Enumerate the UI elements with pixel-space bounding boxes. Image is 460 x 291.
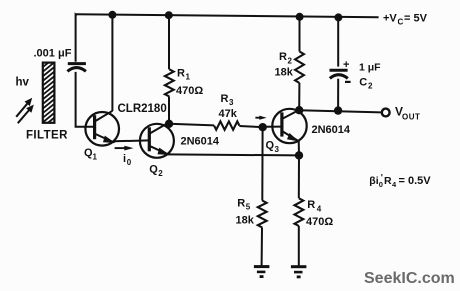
annotation beta i0 R4 = 0.5V <box>369 173 431 190</box>
junction dot Q3 emitter/R4 <box>295 151 303 159</box>
svg-text:hv: hv <box>16 77 30 89</box>
resistor R3 47k <box>169 121 263 129</box>
label 2N6014 (Q2) <box>181 135 220 147</box>
svg-text:1: 1 <box>186 73 191 82</box>
svg-text:Q: Q <box>266 139 275 151</box>
svg-text:βi: βi <box>369 175 378 187</box>
capacitor C2 1uF <box>330 17 348 110</box>
svg-text:R: R <box>307 199 315 211</box>
wire Q1 collector to rail <box>111 15 113 111</box>
label R3 <box>221 93 235 107</box>
ground (R4) <box>291 267 307 277</box>
junction dot Q3 collector/R2 <box>295 106 303 114</box>
junction dot C2 bottom <box>334 106 342 114</box>
resistor R4 470ohm <box>295 155 304 265</box>
label FILTER <box>26 130 68 142</box>
label R1 <box>177 67 191 81</box>
wire Q2 emitter to R4 node <box>168 154 299 155</box>
label hv <box>16 77 30 89</box>
wire C1 to Q1 base <box>76 72 95 127</box>
label 18k (R5) <box>236 214 255 226</box>
base current arrow (Q3) <box>255 116 266 120</box>
junction dot rail/C2 <box>334 13 342 21</box>
junction dot rail/R1 <box>165 11 173 19</box>
terminal Vout <box>382 109 390 117</box>
svg-text:R: R <box>384 175 392 187</box>
svg-text:1 μF: 1 μF <box>359 61 381 73</box>
wire Q3 collector node to Vout <box>299 110 381 112</box>
label Vout <box>395 104 420 121</box>
svg-text:1: 1 <box>93 153 98 162</box>
svg-text:= 5V: = 5V <box>404 13 428 25</box>
svg-text:R: R <box>279 51 287 63</box>
resistor R5 18k <box>258 127 267 265</box>
label + (C2) <box>343 59 349 71</box>
svg-text:Q: Q <box>149 163 158 175</box>
svg-text:R: R <box>221 93 229 105</box>
label R5 <box>237 197 251 211</box>
light arrow 1 <box>16 98 32 117</box>
label CLR2180 <box>118 103 167 115</box>
junction dot rail/Q1 <box>108 11 116 19</box>
label 18k (R2) <box>275 67 294 79</box>
junction dot R1/Q2 collector/R3 <box>165 120 173 128</box>
label 470 ohm <box>176 85 203 97</box>
label C2 <box>359 76 373 90</box>
svg-text:2: 2 <box>288 57 293 66</box>
svg-text:SeekIC.com: SeekIC.com <box>364 270 455 287</box>
svg-text:R: R <box>237 197 245 209</box>
junction dot rail/R2 <box>296 13 304 21</box>
svg-text:2: 2 <box>368 82 373 91</box>
svg-text:470Ω: 470Ω <box>306 216 333 228</box>
label Q3 <box>266 139 280 154</box>
svg-text:18k: 18k <box>275 67 294 79</box>
junction dot R3/Q3 base/R5 <box>259 123 267 131</box>
svg-text:i: i <box>123 153 126 165</box>
svg-text:OUT: OUT <box>402 112 420 121</box>
label 1 uF <box>359 61 381 73</box>
svg-text:CLR2180: CLR2180 <box>118 103 167 115</box>
label R4 <box>307 199 322 213</box>
label 470 ohm (R4) <box>306 216 333 228</box>
svg-text:470Ω: 470Ω <box>176 85 203 97</box>
light arrow 2 <box>18 105 34 124</box>
label 2N6014 (Q3) <box>312 124 351 136</box>
transistor Q1 CLR2180 <box>85 111 119 146</box>
label .001 uF <box>34 47 72 59</box>
svg-text:C: C <box>359 76 367 88</box>
current arrow i0 <box>115 146 134 151</box>
wire Q1 emitter to Q2 base <box>114 139 150 142</box>
label Q2 <box>149 163 163 178</box>
svg-text:': ' <box>381 173 383 183</box>
label R2 <box>279 51 293 65</box>
svg-text:FILTER: FILTER <box>26 130 68 142</box>
resistor R2 18k <box>295 17 304 111</box>
transistor Q2 2N6014 <box>140 122 174 158</box>
svg-text:R: R <box>177 67 185 79</box>
svg-text:47k: 47k <box>219 108 238 120</box>
svg-text:+: + <box>343 59 349 71</box>
svg-text:2: 2 <box>158 169 163 178</box>
svg-text:4: 4 <box>317 205 322 214</box>
wire +Vc supply rail <box>76 14 379 17</box>
resistor R1 470ohm <box>165 15 174 123</box>
watermark SeekIC.com <box>364 270 455 287</box>
svg-text:5: 5 <box>246 203 251 212</box>
label - (C2) <box>345 81 351 83</box>
svg-text:C: C <box>398 18 404 27</box>
label +Vc = 5V <box>383 13 428 27</box>
svg-text:= 0.5V: = 0.5V <box>399 175 432 187</box>
label 47k <box>219 108 238 120</box>
svg-text:+V: +V <box>383 13 397 25</box>
label i0 <box>123 153 132 167</box>
label Q1 <box>84 147 98 162</box>
svg-text:0: 0 <box>127 158 132 167</box>
transistor Q3 2N6014 <box>263 109 307 156</box>
svg-text:2N6014: 2N6014 <box>312 124 351 136</box>
svg-text:3: 3 <box>275 145 280 154</box>
svg-text:3: 3 <box>229 98 234 107</box>
filter element (hatched) <box>41 51 57 138</box>
ground (R5) <box>254 267 270 277</box>
svg-text:.001 μF: .001 μF <box>34 47 72 59</box>
capacitor C1 .001uF <box>67 64 86 72</box>
svg-text:18k: 18k <box>236 214 255 226</box>
wire left rail corner down to C1 <box>76 14 77 62</box>
svg-text:2N6014: 2N6014 <box>181 135 220 147</box>
